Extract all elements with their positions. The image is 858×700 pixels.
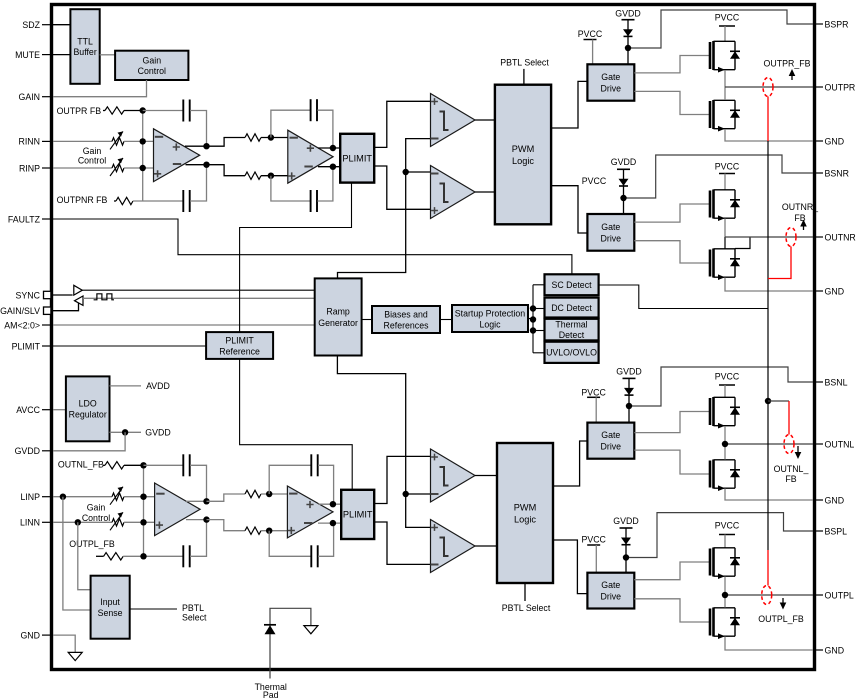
svg-text:LINN: LINN bbox=[20, 518, 40, 528]
wire gate drive 1R-high to high fet bbox=[634, 56, 710, 73]
wire red OUTPR sense bbox=[767, 97, 769, 142]
capacitor C feedback L top bbox=[183, 454, 189, 476]
wire U2 fb bottom to out bbox=[317, 167, 333, 201]
wire gate drive 3L-high to high fet bbox=[634, 412, 710, 433]
node ramp node comp3 bbox=[403, 491, 409, 497]
wire output 2R-low bbox=[725, 236, 813, 238]
wire gnd 2R-low bbox=[725, 278, 813, 292]
svg-text:GND: GND bbox=[825, 136, 845, 146]
wire AVCC to LDO bbox=[53, 409, 66, 411]
wire PWM1 to gate drive 1 bbox=[551, 81, 587, 128]
node GVDD node bbox=[122, 429, 128, 435]
resistor R feedback OUTNL_FB bbox=[105, 462, 124, 469]
power bar PVCC 1R-high bbox=[584, 39, 597, 41]
wire red OUTNL sense bbox=[788, 401, 790, 435]
wire bootstrap 4L-low to BS pin bbox=[626, 513, 813, 558]
wire stage2L top to U4 bbox=[261, 493, 289, 495]
wire ramp to comp2 bbox=[406, 171, 431, 173]
wire stage2 top to U2 bbox=[261, 137, 289, 139]
transistor Q2R-low high-side bbox=[710, 190, 740, 222]
svg-text:Gate: Gate bbox=[601, 580, 620, 590]
wire gate drive 4L-low to high fet bbox=[634, 562, 710, 580]
op-amp U4 (left-ch second stage) bbox=[287, 486, 333, 538]
svg-text:Gate: Gate bbox=[601, 222, 620, 232]
node U2 out- node bbox=[330, 164, 336, 170]
svg-text:AM<2:0>: AM<2:0> bbox=[4, 320, 40, 330]
diode D1R-high (GVDD) bbox=[622, 20, 635, 48]
wire reference to PLIMIT2 bbox=[240, 359, 353, 490]
svg-text:PVCC: PVCC bbox=[581, 534, 606, 544]
wire OUTNL_FB lead bbox=[103, 464, 105, 466]
transistor Q2R-low low-side bbox=[710, 249, 740, 280]
node FB node L2 bbox=[140, 553, 146, 559]
node FB node R1 bbox=[140, 107, 146, 113]
svg-text:LINP: LINP bbox=[20, 492, 40, 502]
node ramp node comp2 bbox=[403, 169, 409, 175]
power bar PVCC rail 3L-high bbox=[719, 384, 735, 386]
node OUTPL junction bbox=[722, 592, 728, 598]
svg-text:PVCC: PVCC bbox=[582, 176, 607, 186]
wire bootstrap 1R-high to BS pin bbox=[628, 10, 813, 48]
arrow OUTPR_FB bbox=[789, 69, 796, 80]
wire MUTE to TTL Buffer bbox=[53, 54, 70, 56]
svg-text:BSPR: BSPR bbox=[825, 19, 849, 29]
buffer SYNC out bbox=[74, 285, 83, 295]
wire RINP input bbox=[53, 167, 112, 169]
power bar PVCC rail 2R-low bbox=[719, 173, 735, 175]
svg-text:Control: Control bbox=[78, 156, 106, 166]
svg-text:BSNR: BSNR bbox=[825, 168, 849, 178]
wire stage2L bottom to U4 bbox=[261, 530, 289, 532]
node U2 out+ node bbox=[330, 145, 336, 151]
block Biases and References bbox=[372, 306, 440, 333]
svg-text:PBTL Select: PBTL Select bbox=[502, 603, 551, 613]
power bar PVCC rail 1R-high bbox=[719, 25, 735, 27]
op-amp U1 (right-ch first stage) bbox=[154, 129, 200, 182]
wire half-bridge 3L-high mid bbox=[724, 426, 726, 460]
wire U4 fb top to out bbox=[318, 465, 334, 504]
svg-text:DC Detect: DC Detect bbox=[551, 303, 592, 313]
svg-text:OUTNL: OUTNL bbox=[825, 439, 855, 449]
block Gate Drive 4L-low bbox=[587, 573, 634, 609]
wire bootstrap 2R-low to BS pin bbox=[624, 155, 814, 198]
node GVDD node 2R-low bbox=[620, 195, 626, 201]
wire FAULTZ route bbox=[53, 219, 572, 274]
svg-text:OUTPR FB: OUTPR FB bbox=[57, 106, 102, 116]
wire gnd 1R-high bbox=[725, 129, 813, 141]
svg-text:Reference: Reference bbox=[219, 346, 260, 356]
wire gate drive 2R-low to low fet bbox=[634, 241, 710, 263]
wire GVDD 1R-high to gate drive bbox=[627, 48, 629, 64]
svg-text:GVDD: GVDD bbox=[145, 428, 170, 438]
wire PBTL select bottom lead bbox=[524, 583, 526, 601]
wire U2 fb top loop bbox=[271, 110, 310, 137]
op-amp U3 (left-ch first stage) bbox=[155, 483, 201, 536]
capacitor C feedback R top bbox=[183, 100, 189, 122]
arrow OUTNL_FB bbox=[795, 446, 802, 459]
pin BSPL bbox=[813, 530, 823, 532]
comparator CMP1 bbox=[431, 94, 476, 147]
block Ramp Generator bbox=[315, 278, 362, 355]
wire bus to DC bbox=[533, 308, 545, 310]
svg-text:SDZ: SDZ bbox=[22, 20, 40, 30]
svg-text:FAULTZ: FAULTZ bbox=[8, 214, 41, 224]
wire LINN to op-amp U3 bbox=[124, 521, 156, 523]
svg-text:BSNL: BSNL bbox=[825, 377, 848, 387]
wire half-bridge 2R-low mid bbox=[724, 219, 726, 238]
wire PVCC 4L-low stub bbox=[595, 545, 597, 573]
wire fb bottom to output bbox=[190, 165, 207, 201]
current-sense marker OUTPL sense bbox=[762, 586, 772, 605]
wire U2 out- to PLIMIT bbox=[318, 166, 340, 168]
pin pad GAIN/SLV bbox=[44, 307, 51, 314]
wire gate drive 3L-high to low fet bbox=[634, 450, 710, 474]
svg-text:OUTNR: OUTNR bbox=[825, 232, 856, 242]
node sense tap node bbox=[765, 398, 771, 404]
wire GND pin wire bbox=[53, 635, 75, 652]
svg-text:Startup Protection: Startup Protection bbox=[455, 308, 526, 318]
block LDO Regulator bbox=[66, 376, 110, 441]
svg-text:Logic: Logic bbox=[514, 514, 536, 524]
wire SC detect to sense column bbox=[599, 285, 768, 309]
wire output 1R-high bbox=[725, 86, 813, 88]
transistor Q1R-high high-side bbox=[710, 41, 740, 73]
wire gate drive 1R-high to low fet bbox=[634, 91, 710, 114]
wire low fet 2R-low drain stub bbox=[724, 237, 726, 249]
resistor R gain RINN bbox=[112, 138, 124, 145]
capacitor C feedback U2 top bbox=[311, 99, 317, 121]
wire U2 fb top to out bbox=[317, 110, 333, 148]
pin OUTPL bbox=[813, 594, 823, 596]
node LINN pin node bbox=[75, 519, 81, 525]
svg-text:GVDD: GVDD bbox=[611, 157, 636, 167]
wire gate drive 4L-low to low fet bbox=[634, 599, 710, 622]
node U4 out- node bbox=[330, 520, 336, 526]
block PLIMIT (left) bbox=[341, 490, 374, 539]
wire sense tap to OUTNL bbox=[768, 400, 789, 402]
wire PLIMIT out A bbox=[374, 101, 430, 147]
wire Gain Control to GAIN pin bbox=[53, 80, 147, 97]
wire red OUTPL sense bbox=[767, 550, 769, 586]
block Gate Drive 2R-low bbox=[587, 214, 634, 251]
block Input Sense bbox=[91, 576, 130, 639]
current-sense marker OUTPR sense bbox=[763, 78, 773, 97]
wire U2 out+ to PLIMIT bbox=[318, 147, 340, 149]
pin pad SYNC bbox=[44, 291, 51, 298]
wire LINP to input sense bbox=[63, 497, 91, 610]
capacitor C feedback L bottom bbox=[183, 545, 189, 567]
pin GND bbox=[813, 140, 823, 142]
svg-text:PBTL: PBTL bbox=[182, 603, 204, 613]
wire CMP3 out bbox=[475, 475, 497, 477]
wire startup to detect bus bbox=[528, 318, 533, 320]
wire stage2L top rail bbox=[207, 494, 246, 501]
wire bootstrap 3L-high to BS pin bbox=[629, 367, 813, 406]
wire ramp to comparators (bottom) bbox=[337, 356, 430, 528]
comparator CMP4 bbox=[431, 520, 476, 573]
node GVDD node 1R-high bbox=[625, 45, 631, 51]
node RINN node bbox=[140, 138, 146, 144]
wire LDO AVDD out bbox=[110, 385, 142, 387]
wire PVCC 1R-high stub bbox=[592, 40, 594, 65]
block PWM Logic (right) bbox=[495, 85, 551, 225]
wire red OUTNR sense bbox=[768, 247, 791, 279]
wire PLIMIT2 out B bbox=[374, 522, 430, 564]
node U4 out+ node bbox=[330, 501, 336, 507]
capacitor C feedback U2 bottom bbox=[311, 190, 317, 212]
wire GVDD to pin bbox=[53, 432, 125, 451]
capacitor C feedback R bottom bbox=[183, 190, 189, 212]
svg-text:PVCC: PVCC bbox=[581, 388, 606, 398]
wire RINN input bbox=[53, 140, 112, 142]
wire CMP2 out bbox=[475, 191, 495, 193]
wire OUTPL_FB lead bbox=[96, 555, 104, 557]
wire OUTPNR FB wire bbox=[133, 200, 183, 202]
svg-text:PVCC: PVCC bbox=[715, 12, 740, 22]
diode thermal pad bbox=[264, 625, 276, 634]
svg-text:References: References bbox=[384, 320, 430, 330]
svg-text:Ramp: Ramp bbox=[326, 307, 350, 317]
wire U4 out- to PLIMIT2 bbox=[318, 522, 341, 524]
svg-text:FB: FB bbox=[785, 474, 796, 484]
svg-text:GVDD: GVDD bbox=[613, 516, 638, 526]
wire gate drive 2R-low to high fet bbox=[634, 204, 710, 222]
svg-text:PVCC: PVCC bbox=[578, 29, 603, 39]
svg-text:OUTPL_FB: OUTPL_FB bbox=[758, 614, 804, 624]
svg-text:SC Detect: SC Detect bbox=[551, 280, 592, 290]
power bar PVCC 4L-low bbox=[587, 544, 600, 546]
capacitor C feedback U4 top bbox=[311, 454, 317, 476]
svg-text:GVDD: GVDD bbox=[616, 366, 641, 376]
node stage2L bottom node bbox=[266, 528, 272, 534]
ground symbol bbox=[68, 652, 82, 660]
wire PWM1 to gate drive 2 bbox=[551, 186, 587, 233]
svg-text:Logic: Logic bbox=[512, 156, 534, 166]
wire GVDD 2R-low to gate drive bbox=[623, 198, 625, 214]
resistor R feedback OUTPNR FB bbox=[116, 197, 133, 204]
diode D4L-low (GVDD) bbox=[620, 528, 633, 558]
wire SDZ to TTL Buffer bbox=[53, 24, 70, 26]
svg-text:UVLO/OVLO: UVLO/OVLO bbox=[546, 348, 597, 358]
svg-text:BSPL: BSPL bbox=[825, 526, 848, 536]
wire detect bus bbox=[532, 285, 534, 353]
resistor R feedback OUTPL_FB bbox=[104, 553, 124, 560]
svg-text:Generator: Generator bbox=[318, 318, 358, 328]
svg-text:Select: Select bbox=[182, 613, 207, 623]
resistor R gain LINP bbox=[112, 493, 124, 500]
svg-text:GVDD: GVDD bbox=[615, 8, 640, 18]
comparator CMP2 bbox=[431, 166, 476, 219]
wire PWM2 to gate drive 4 bbox=[553, 540, 588, 594]
arrow OUTPL_FB bbox=[780, 598, 787, 610]
buffer SYNC in bbox=[75, 296, 84, 305]
svg-text:GND: GND bbox=[20, 630, 40, 640]
current-sense marker OUTNL sense bbox=[784, 435, 794, 454]
wire U4 fb top loop bbox=[269, 465, 311, 494]
wire OUTPR FB to node bbox=[124, 110, 143, 112]
block Gate Drive 3L-high bbox=[587, 423, 634, 459]
wire ramp to comp3 bbox=[406, 493, 431, 495]
svg-text:PLIMIT: PLIMIT bbox=[12, 341, 41, 351]
capacitor C feedback U4 bottom bbox=[311, 545, 317, 567]
svg-text:SYNC: SYNC bbox=[16, 290, 41, 300]
wire PLIMIT2 out A bbox=[374, 456, 430, 503]
wire OUTPL_FB wire bbox=[123, 555, 183, 557]
wire OUTPR FB lead bbox=[103, 110, 105, 112]
wire RINN to op-amp U1 bbox=[124, 140, 155, 142]
node FB node L1 bbox=[140, 462, 146, 468]
wire LINN input bbox=[53, 521, 112, 523]
transistor Q4L-low low-side bbox=[710, 608, 740, 640]
resistor R stage2 bottom bbox=[245, 172, 261, 179]
wire GVDD 3L-high to gate drive bbox=[628, 406, 630, 423]
block Gate Drive 1R-high bbox=[587, 64, 634, 100]
transistor Q3L-high low-side bbox=[710, 460, 740, 491]
ground symbol bbox=[304, 626, 318, 634]
wire CMP4 out bbox=[475, 545, 497, 547]
wire ramp to comparators (top) bbox=[338, 139, 431, 279]
wire fb top to output bbox=[190, 111, 207, 147]
wire bus to UVLO bbox=[533, 352, 545, 354]
diode D2R-low (GVDD) bbox=[617, 169, 630, 198]
pin OUTNL bbox=[813, 443, 823, 445]
block Startup Protection Logic bbox=[452, 305, 528, 332]
wire low fet 2R-low drain step bbox=[735, 237, 750, 249]
wire summing column R bbox=[142, 111, 144, 202]
pin GND bbox=[813, 649, 823, 651]
svg-text:PLIMIT: PLIMIT bbox=[342, 154, 372, 164]
wire U2 fb bottom loop bbox=[271, 176, 310, 201]
node GVDD node 3L-high bbox=[626, 403, 632, 409]
arrow OUTNR_FB bbox=[800, 220, 807, 231]
wire SYNC line to ramp bbox=[82, 289, 314, 291]
block UVLO/OVLO bbox=[545, 342, 599, 363]
svg-text:GAIN: GAIN bbox=[18, 92, 40, 102]
svg-text:AVDD: AVDD bbox=[146, 381, 170, 391]
node U1 out- node bbox=[203, 162, 209, 168]
node LINP pin node bbox=[60, 494, 66, 500]
node LINN node inner bbox=[140, 519, 146, 525]
block Thermal Detect bbox=[545, 319, 599, 341]
wire output 3L-high bbox=[725, 443, 813, 445]
svg-text:OUTNL_: OUTNL_ bbox=[774, 464, 809, 474]
svg-text:RINP: RINP bbox=[19, 163, 40, 173]
block PLIMIT Reference bbox=[206, 332, 273, 359]
pin BSNL bbox=[813, 381, 823, 383]
svg-text:OUTPR: OUTPR bbox=[825, 82, 856, 92]
wire U3 out- wire bbox=[186, 519, 207, 521]
block Gain Control bbox=[115, 51, 188, 80]
wire PVCC rail 1R-high to drain bbox=[724, 26, 726, 41]
wire PLIMIT out B bbox=[374, 166, 430, 209]
wire PBTL select top lead bbox=[523, 69, 525, 85]
svg-text:Regulator: Regulator bbox=[69, 410, 107, 420]
transistor Q3L-high high-side bbox=[710, 397, 740, 428]
resistor R gain RINP bbox=[112, 164, 124, 171]
svg-text:OUTPNR FB: OUTPNR FB bbox=[57, 195, 108, 205]
svg-text:PBTL Select: PBTL Select bbox=[500, 57, 549, 67]
node OUTNL junction bbox=[722, 441, 728, 447]
wire gnd 3L-high bbox=[725, 489, 813, 501]
wire U1 out+ wire bbox=[185, 145, 207, 147]
svg-text:OUTPR_FB: OUTPR_FB bbox=[764, 58, 811, 68]
svg-text:PVCC: PVCC bbox=[715, 162, 740, 172]
svg-text:Buffer: Buffer bbox=[73, 47, 96, 57]
svg-text:TTL: TTL bbox=[77, 37, 93, 47]
block TTL Buffer bbox=[70, 9, 99, 84]
wire SLV line to ramp bbox=[83, 297, 315, 299]
node stage2 bottom node bbox=[268, 173, 274, 179]
svg-text:AVCC: AVCC bbox=[16, 405, 40, 415]
resistor R stage2L bottom bbox=[245, 527, 261, 534]
wire fb top cap wire bbox=[143, 110, 183, 112]
node bus node 1 bbox=[530, 305, 536, 311]
svg-text:Drive: Drive bbox=[601, 84, 622, 94]
svg-text:Detect: Detect bbox=[559, 330, 585, 340]
wire bus to Thermal bbox=[533, 330, 545, 332]
wire gnd 4L-low bbox=[725, 637, 813, 651]
wire PWM2 to gate drive 3 bbox=[553, 441, 587, 486]
wire LINN to input sense bbox=[78, 522, 91, 589]
wire LINP to op-amp U3 bbox=[124, 496, 156, 498]
wire U4 out+ to PLIMIT2 bbox=[318, 503, 341, 505]
wire OUTNL_FB to node bbox=[124, 464, 142, 466]
svg-text:GAIN/SLV: GAIN/SLV bbox=[0, 306, 40, 316]
svg-text:GND: GND bbox=[825, 645, 845, 655]
power bar PVCC 3L-high bbox=[587, 396, 600, 398]
node U3 out+ node bbox=[203, 498, 209, 504]
svg-text:Sense: Sense bbox=[98, 608, 123, 618]
svg-text:Drive: Drive bbox=[601, 442, 622, 452]
wire SYNC pad lead bbox=[51, 294, 73, 296]
wire biases to startup bbox=[440, 319, 452, 321]
node bus node 2 bbox=[530, 316, 536, 322]
svg-text:PVCC: PVCC bbox=[715, 372, 740, 382]
diode D3L-high (GVDD) bbox=[623, 378, 636, 406]
wire LDO GVDD out bbox=[110, 431, 142, 433]
svg-text:Drive: Drive bbox=[601, 233, 622, 243]
wire PVCC rail 4L-low to drain bbox=[724, 535, 726, 548]
wire stage2 top rail bbox=[207, 138, 246, 147]
svg-text:OUTNL_FB: OUTNL_FB bbox=[58, 460, 104, 470]
wire PLIMIT1 to reference bbox=[240, 183, 352, 333]
wire LINP input bbox=[53, 496, 112, 498]
svg-text:RINN: RINN bbox=[18, 137, 40, 147]
wire U4 fb bottom loop bbox=[269, 531, 311, 557]
svg-text:Thermal: Thermal bbox=[555, 320, 587, 330]
svg-text:Gain: Gain bbox=[87, 502, 106, 512]
svg-text:Pad: Pad bbox=[263, 690, 279, 700]
svg-text:PWM: PWM bbox=[514, 502, 536, 512]
node GVDD node 4L-low bbox=[623, 554, 629, 560]
svg-text:MUTE: MUTE bbox=[15, 50, 40, 60]
block PWM Logic (left) bbox=[497, 443, 553, 583]
block SC Detect bbox=[545, 274, 599, 295]
node bus node 3 bbox=[530, 327, 536, 333]
svg-text:Input: Input bbox=[100, 597, 120, 607]
node U1 out+ node bbox=[203, 143, 209, 149]
svg-text:PLIMIT: PLIMIT bbox=[343, 510, 373, 520]
svg-text:FB: FB bbox=[794, 213, 805, 223]
svg-text:GVDD: GVDD bbox=[15, 446, 40, 456]
wire fb L bottom to output bbox=[190, 520, 207, 557]
wire PLIMIT pin to reference bbox=[53, 345, 206, 347]
svg-text:PLIMIT: PLIMIT bbox=[225, 335, 254, 345]
wire half-bridge 4L-low mid bbox=[724, 577, 726, 608]
wire stage2L bottom rail bbox=[207, 520, 246, 531]
node U3 out- node bbox=[203, 516, 209, 522]
resistor R gain LINN bbox=[112, 519, 124, 526]
